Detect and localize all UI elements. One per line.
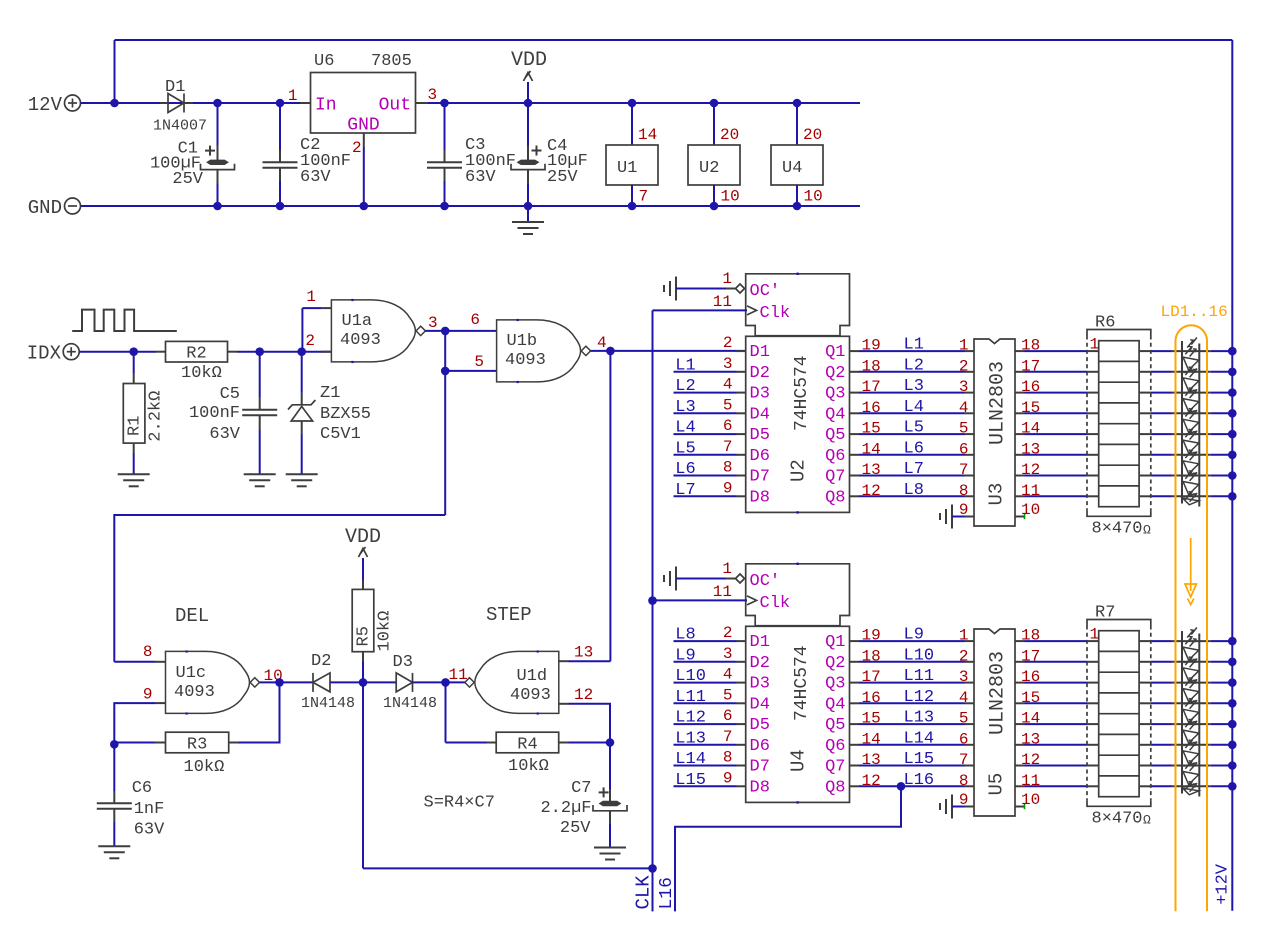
- wire U2 Q3 to U3: [859, 392, 965, 394]
- wire U3 out6 stub: [1015, 475, 1025, 477]
- svg-text:Q1: Q1: [825, 633, 845, 652]
- wire LED3 to bus: [1211, 412, 1232, 414]
- wire U2 Clk: [653, 309, 748, 311]
- wire U3 out6 to R6: [1025, 475, 1088, 477]
- svg-text:D6: D6: [750, 737, 770, 756]
- svg-text:D3: D3: [750, 675, 770, 694]
- junction D2/D3/R5: [359, 678, 368, 687]
- svg-text:L10: L10: [904, 646, 935, 665]
- wire U3 pin10 stub: [1015, 516, 1025, 518]
- LED Dbank1-8: [1183, 492, 1199, 505]
- svg-text:L11: L11: [904, 667, 935, 686]
- wire R6 out7 stub: [1139, 495, 1151, 497]
- wire C2 bottom stub: [279, 168, 281, 181]
- wire U5 out7 to R7: [1025, 785, 1088, 787]
- wire +12V top run: [115, 39, 1233, 41]
- regulator U6 body: [311, 73, 416, 134]
- resistor network R6 outer bottom: [1087, 510, 1151, 516]
- svg-text:4093: 4093: [340, 331, 381, 350]
- wire R6 in2 stub: [1087, 392, 1099, 394]
- wire LED0 to bus: [1211, 350, 1232, 352]
- wire R6 out1: [1151, 371, 1172, 373]
- ground below Z1: [286, 474, 318, 486]
- wire U3 out0 stub: [1015, 350, 1025, 352]
- wire U2 D1 stub: [737, 350, 746, 352]
- ground below C4: [512, 222, 544, 234]
- svg-text:D2: D2: [311, 652, 331, 671]
- junction C3 bottom: [440, 202, 449, 211]
- junction IDX/R1: [129, 347, 138, 356]
- wire R2 left stub: [156, 351, 166, 353]
- svg-text:ULN2803: ULN2803: [987, 651, 1010, 735]
- wire U1a out: [426, 330, 497, 332]
- svg-text:10kΩ: 10kΩ: [184, 758, 225, 777]
- wire LED7 cross: [1172, 495, 1211, 497]
- wire U5 out4 stub: [1015, 723, 1025, 725]
- wire R7 in7 stub: [1087, 785, 1099, 787]
- junction U1 power top: [628, 99, 637, 108]
- svg-text:10: 10: [804, 188, 823, 206]
- wire U1c pin8 stub: [156, 661, 166, 663]
- op-amp U1a gate: [331, 299, 425, 363]
- wire C5 top stub: [259, 397, 261, 410]
- wire U1b pin5 vert: [444, 331, 446, 371]
- wire D1 stub right: [184, 102, 193, 104]
- svg-text:74HC574: 74HC574: [792, 355, 812, 431]
- wire R6 out3 stub: [1139, 412, 1151, 414]
- wire U3 out3 stub: [1015, 412, 1025, 414]
- svg-text:R7: R7: [1095, 604, 1115, 623]
- junction bus row 1 bank1: [1228, 368, 1237, 377]
- wire C6 top stub: [113, 791, 115, 803]
- svg-text:1nF: 1nF: [134, 800, 165, 819]
- junction 12V/D1/+12V: [110, 99, 119, 108]
- power pins box U1: [606, 145, 658, 185]
- wire R1 bottom stub: [133, 443, 135, 453]
- wire U2 Q2 stub: [850, 371, 860, 373]
- wire R4 right stub: [559, 742, 569, 744]
- wire R7 out0: [1151, 640, 1172, 642]
- svg-text:D2: D2: [750, 654, 770, 673]
- wire U4 Q5 stub: [850, 723, 860, 725]
- wire U4 Q4 to U5: [859, 702, 965, 704]
- wire U1 power top: [631, 103, 633, 145]
- svg-text:9: 9: [723, 769, 733, 787]
- wire R5 bottom stub: [362, 652, 364, 662]
- svg-text:4093: 4093: [174, 683, 215, 702]
- wire net L8 left: [674, 640, 737, 642]
- wire U5 in4 stub: [965, 702, 975, 704]
- wire net L12 left: [674, 723, 737, 725]
- wire U1d pin12: [569, 704, 611, 743]
- svg-text:L9: L9: [904, 626, 924, 645]
- svg-text:U2: U2: [699, 159, 719, 178]
- svg-text:10: 10: [1021, 791, 1040, 809]
- svg-text:Q5: Q5: [825, 426, 845, 445]
- svg-text:ULN2803: ULN2803: [987, 361, 1010, 445]
- wire R6 out6 stub: [1139, 475, 1151, 477]
- junction C2 bottom: [276, 202, 285, 211]
- svg-text:3: 3: [723, 355, 733, 373]
- register U4 control box: [746, 564, 850, 626]
- wire R7 out5 stub: [1139, 744, 1151, 746]
- junction Z1/pin1: [297, 347, 306, 356]
- wire U2 D8 stub: [737, 495, 746, 497]
- svg-text:74HC574: 74HC574: [792, 645, 812, 721]
- CLK net group: [633, 310, 657, 911]
- svg-text:D7: D7: [750, 468, 770, 487]
- svg-text:Q8: Q8: [825, 778, 845, 797]
- wire net L7 left: [674, 495, 737, 497]
- wire U4 D3 stub: [737, 682, 746, 684]
- svg-text:L4: L4: [675, 419, 695, 438]
- svg-text:1: 1: [959, 337, 969, 355]
- wire U5 pin10 stub: [1015, 806, 1025, 808]
- register U4 body: [746, 626, 850, 802]
- LED Dbank1-5: [1183, 429, 1199, 455]
- svg-text:D4: D4: [750, 695, 770, 714]
- U5 pin10 mark: [1024, 804, 1026, 809]
- svg-text:Q7: Q7: [825, 468, 845, 487]
- svg-text:D3: D3: [393, 653, 413, 672]
- svg-text:4: 4: [723, 666, 733, 684]
- wire U1d pin13: [569, 660, 611, 662]
- wire U4 D8 stub: [737, 785, 746, 787]
- resistor R3: [166, 732, 229, 753]
- wire U5 out5 to R7: [1025, 744, 1088, 746]
- wire C4 bottom lead: [527, 184, 529, 207]
- svg-text:DEL: DEL: [175, 605, 209, 627]
- wire R3 left stub: [156, 742, 166, 744]
- svg-text:2: 2: [352, 139, 362, 157]
- wire U4 D2 stub: [737, 661, 746, 663]
- svg-text:3: 3: [959, 668, 969, 686]
- svg-text:U2: U2: [788, 459, 810, 482]
- wire net L11 left: [674, 702, 737, 704]
- svg-text:L6: L6: [675, 460, 695, 479]
- wire U1c pin8: [114, 661, 156, 663]
- svg-text:U5: U5: [986, 773, 1008, 796]
- wire R7 out6 stub: [1139, 765, 1151, 767]
- junction U1c out: [275, 678, 284, 687]
- wire Z1 bottom stub: [301, 421, 303, 433]
- wire U3 in5 stub: [965, 433, 975, 435]
- wire C4 top stub: [527, 146, 529, 161]
- junction bus row 4 bank2: [1228, 720, 1237, 729]
- wire U5 pin9: [952, 806, 965, 808]
- LED strip bank1 top arrows: [1187, 338, 1197, 348]
- svg-text:D1: D1: [750, 633, 770, 652]
- wire R6 out4 stub: [1139, 433, 1151, 435]
- svg-text:L2: L2: [904, 356, 924, 375]
- wire +12V right drop: [1231, 40, 1233, 911]
- ground below R1: [118, 474, 150, 486]
- svg-text:25V: 25V: [560, 819, 591, 838]
- svg-text:L7: L7: [904, 460, 924, 479]
- svg-text:D8: D8: [750, 778, 770, 797]
- svg-text:L6: L6: [904, 439, 924, 458]
- svg-text:1N4007: 1N4007: [153, 118, 207, 135]
- wire U1c out: [260, 681, 313, 683]
- svg-text:5: 5: [959, 420, 969, 438]
- wire U4 Q4 stub: [850, 702, 860, 704]
- svg-text:C5V1: C5V1: [320, 425, 361, 444]
- svg-text:D1: D1: [165, 78, 185, 97]
- wire R6 in6 stub: [1087, 475, 1099, 477]
- wire C4 gnd drop: [527, 206, 529, 221]
- wire U5 out0 to R7: [1025, 640, 1088, 642]
- svg-text:R1: R1: [126, 416, 145, 436]
- diode D2: [313, 673, 330, 692]
- svg-text:L13: L13: [675, 729, 706, 748]
- svg-text:L14: L14: [675, 750, 706, 769]
- U2 origin marks: [796, 273, 798, 514]
- svg-text:L7: L7: [675, 481, 695, 500]
- wire U5 in5 stub: [965, 723, 975, 725]
- resistor network R7 outer bottom: [1087, 800, 1151, 806]
- junction bus row 7 bank2: [1228, 782, 1237, 791]
- svg-text:4: 4: [959, 399, 969, 417]
- wire U4 D1 stub: [737, 640, 746, 642]
- wire R7 in0 stub: [1087, 640, 1099, 642]
- svg-text:1: 1: [959, 627, 969, 645]
- svg-text:1: 1: [722, 560, 732, 578]
- svg-text:Q6: Q6: [825, 447, 845, 466]
- svg-text:VDD: VDD: [511, 49, 547, 72]
- wire LED2 cross: [1172, 392, 1211, 394]
- wire 12V to D1: [115, 102, 161, 104]
- svg-text:7: 7: [723, 728, 733, 746]
- wire net L5 left: [674, 454, 737, 456]
- wire U4 Q3 stub: [850, 682, 860, 684]
- wire R4 left: [446, 742, 487, 744]
- svg-text:D5: D5: [750, 426, 770, 445]
- capacitor C6: [97, 803, 132, 809]
- junction bus row 2 bank1: [1228, 388, 1237, 397]
- svg-text:8: 8: [723, 459, 733, 477]
- svg-text:8×470: 8×470: [1092, 520, 1143, 539]
- wire C3 bottom stub: [444, 168, 446, 181]
- svg-text:13: 13: [574, 644, 593, 662]
- wire LED3 cross: [1172, 412, 1211, 414]
- svg-text:L5: L5: [675, 439, 695, 458]
- capacitor C4: [511, 160, 545, 170]
- wire U2 Q7 to U3: [859, 475, 965, 477]
- wire net L1 left: [674, 371, 737, 373]
- wire U6 GND stub: [363, 133, 365, 147]
- svg-text:5: 5: [723, 686, 733, 704]
- wire U6 GND down: [363, 147, 365, 206]
- wire R3 to U1c out: [239, 682, 280, 742]
- wire pin1 stub: [321, 307, 331, 309]
- svg-text:20: 20: [803, 126, 822, 144]
- ground below C6: [98, 846, 130, 858]
- wire R6 out2 stub: [1139, 392, 1151, 394]
- C4 plus: [532, 146, 542, 156]
- wire C2 top stub: [279, 150, 281, 162]
- svg-text:1: 1: [306, 288, 316, 306]
- wire R7 out2: [1151, 682, 1172, 684]
- wire C7 top stub: [609, 789, 611, 802]
- wire U3 in1 stub: [965, 350, 975, 352]
- svg-text:CLK: CLK: [633, 875, 655, 910]
- svg-text:U3: U3: [986, 483, 1008, 506]
- wire U1 power bottom: [631, 185, 633, 206]
- svg-text:Q6: Q6: [825, 737, 845, 756]
- svg-text:4: 4: [723, 376, 733, 394]
- wire U3 out1 to R6: [1025, 371, 1088, 373]
- junction bus row 3 bank1: [1228, 409, 1237, 418]
- wire U1b out down: [609, 351, 611, 661]
- svg-text:11: 11: [449, 666, 468, 684]
- junction C2 top: [276, 99, 285, 108]
- wire C4 bottom stub: [527, 170, 529, 184]
- wire U2 D6 stub: [737, 454, 746, 456]
- wire U5 in7 stub: [965, 765, 975, 767]
- junction U1 power bottom: [628, 202, 637, 211]
- wire R6 in4 stub: [1087, 433, 1099, 435]
- junction VDD/C4: [524, 99, 533, 108]
- svg-text:U1: U1: [617, 159, 637, 178]
- U2 OC bubble: [736, 284, 745, 293]
- wire LED7 to bus: [1211, 785, 1232, 787]
- wire U4 D6 stub: [737, 744, 746, 746]
- wire LED5 to bus: [1211, 454, 1232, 456]
- wire U4 D5 stub: [737, 723, 746, 725]
- svg-text:63V: 63V: [134, 821, 165, 840]
- svg-text:4093: 4093: [505, 351, 546, 370]
- svg-text:OC': OC': [750, 572, 781, 591]
- svg-text:2: 2: [723, 334, 733, 352]
- junction U6 GND: [360, 202, 369, 211]
- wire R6 in3 stub: [1087, 412, 1099, 414]
- svg-text:10kΩ: 10kΩ: [508, 757, 549, 776]
- wire LED0 to bus: [1211, 640, 1232, 642]
- wire C1 bottom lead: [217, 184, 219, 207]
- junction C4 bottom: [524, 202, 533, 211]
- wire R7 in1 stub: [1087, 661, 1099, 663]
- wire LED1 to bus: [1211, 661, 1232, 663]
- LED Dbank1-1: [1183, 346, 1199, 372]
- ground below C7: [594, 848, 626, 860]
- wire U3 out5 to R6: [1025, 454, 1088, 456]
- wire U4 Q6 to U5: [859, 744, 965, 746]
- LED Dbank2-3: [1183, 678, 1199, 704]
- wire net L2 left: [674, 392, 737, 394]
- wire LED6 cross: [1172, 765, 1211, 767]
- ground below C5: [244, 474, 276, 486]
- wire U1d out to R4: [445, 682, 447, 742]
- wire C6 top lead: [113, 744, 115, 791]
- svg-text:2.2kΩ: 2.2kΩ: [147, 391, 166, 442]
- ground at U2 OC: [664, 277, 676, 301]
- op-amp U1b gate: [497, 319, 591, 383]
- wire U4 Q3 to U5: [859, 682, 965, 684]
- wire C2 bottom lead: [279, 181, 281, 206]
- wire net L9 left: [674, 661, 737, 663]
- wire pin1 vertical: [301, 308, 303, 352]
- svg-text:2: 2: [305, 332, 315, 350]
- junction U1d out: [441, 678, 450, 687]
- wire U4 Q1 to U5: [859, 640, 965, 642]
- diode D1: [168, 94, 184, 113]
- svg-text:L3: L3: [675, 398, 695, 417]
- wire U5 out2 stub: [1015, 682, 1025, 684]
- wire C6 bottom stub: [113, 809, 115, 822]
- svg-text:U4: U4: [788, 749, 810, 772]
- resistor R5: [352, 589, 374, 651]
- wire U2 Q4 stub: [850, 412, 860, 414]
- wire R7 out1 stub: [1139, 661, 1151, 663]
- svg-text:3: 3: [959, 378, 969, 396]
- U4 Clk wedge: [747, 596, 757, 605]
- wire pin1 horiz: [302, 307, 321, 309]
- svg-text:Q3: Q3: [825, 385, 845, 404]
- svg-text:D4: D4: [750, 405, 770, 424]
- svg-text:Z1: Z1: [320, 384, 340, 403]
- junction C1 bottom: [213, 202, 222, 211]
- junction U1b pin5: [441, 367, 450, 376]
- wire U3 in7 stub: [965, 475, 975, 477]
- svg-text:9: 9: [959, 791, 969, 809]
- svg-text:7: 7: [959, 751, 969, 769]
- junction bus row 2 bank2: [1228, 678, 1237, 687]
- svg-text:5: 5: [959, 710, 969, 728]
- LED Dbank1-3: [1183, 388, 1199, 414]
- junction R4/C7: [606, 738, 615, 747]
- wire U4 Q7 to U5: [859, 765, 965, 767]
- wire LED4 to bus: [1211, 723, 1232, 725]
- svg-text:5: 5: [474, 353, 484, 371]
- svg-text:6: 6: [959, 730, 969, 748]
- wire R6 in5 stub: [1087, 454, 1099, 456]
- wire U4 Q8 to U5: [859, 785, 965, 787]
- wire U2 Q7 stub: [850, 475, 860, 477]
- wire R7 in3 stub: [1087, 702, 1099, 704]
- wire R7 out7 stub: [1139, 785, 1151, 787]
- wire R6 out5: [1151, 454, 1172, 456]
- wire net L6 left: [674, 475, 737, 477]
- svg-text:L15: L15: [904, 750, 935, 769]
- svg-text:D3: D3: [750, 385, 770, 404]
- wire U5 in6 stub: [965, 744, 975, 746]
- wire U2 D7 stub: [737, 475, 746, 477]
- svg-text:4: 4: [959, 689, 969, 707]
- wire C5 top lead: [259, 352, 261, 397]
- wire U3 out0 to R6: [1025, 350, 1088, 352]
- wire U2 Q2 to U3: [859, 371, 965, 373]
- wire U6 Out stub: [416, 102, 429, 104]
- wire U5 out3 stub: [1015, 702, 1025, 704]
- wire U4 Q1 stub: [850, 640, 860, 642]
- wire U4 Q8 stub: [850, 785, 860, 787]
- svg-text:U6: U6: [314, 52, 334, 71]
- wire U2 Q8 to U3: [859, 495, 965, 497]
- wire U2 Q5 stub: [850, 433, 860, 435]
- svg-text:L1: L1: [904, 336, 924, 355]
- wire D2-D3: [330, 681, 396, 683]
- wire U3 out1 stub: [1015, 371, 1025, 373]
- svg-text:7: 7: [723, 438, 733, 456]
- wire +12V up from 12V rail: [114, 40, 116, 103]
- svg-text:Out: Out: [379, 96, 411, 116]
- svg-text:6: 6: [959, 440, 969, 458]
- wire R6 out2: [1151, 392, 1172, 394]
- wire LED4 cross: [1172, 433, 1211, 435]
- svg-text:D1: D1: [750, 343, 770, 362]
- wire R7 out4: [1151, 723, 1172, 725]
- svg-text:L11: L11: [675, 688, 706, 707]
